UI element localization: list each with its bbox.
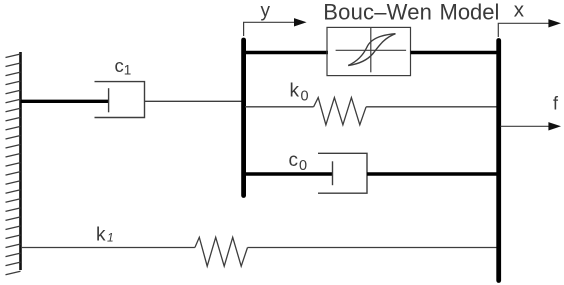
displacement x arrowhead <box>548 19 561 27</box>
spring K1 <box>195 237 248 266</box>
wire: wall to spring k1 <box>21 247 195 249</box>
damper C0 cylinder (open left) <box>318 153 367 193</box>
wire: middle bar to damper C0 piston <box>245 172 333 175</box>
wire: spring k0 to right bar <box>366 106 497 108</box>
displacement x leader line <box>498 23 549 37</box>
svg-text:y: y <box>261 1 271 22</box>
Bouc-Wen block box <box>327 27 411 75</box>
wall (fixed support, left) <box>19 52 22 270</box>
wire: middle bar to Bouc-Wen block <box>245 51 328 54</box>
svg-text:Bouc–Wen: Bouc–Wen <box>323 0 432 24</box>
spring K0 <box>314 98 367 125</box>
wire: spring k1 to right bar <box>248 247 498 249</box>
force f arrow line <box>501 125 550 127</box>
wall hatching <box>6 54 21 275</box>
node: middle rigid bar (piston rod) <box>241 40 246 196</box>
wire: damper C0 to right bar <box>367 172 497 175</box>
Bouc-Wen hysteresis loop <box>348 34 395 66</box>
wire: damper C1 to middle bar <box>145 100 243 102</box>
damper C1 piston plate <box>108 88 110 112</box>
displacement y leader line <box>244 22 295 36</box>
force f arrowhead <box>548 122 561 130</box>
wire: Bouc-Wen block to right bar <box>411 51 498 54</box>
svg-text:Model: Model <box>440 0 500 24</box>
damper C0 piston plate <box>332 161 334 185</box>
wire: middle bar to spring k0 <box>245 106 314 108</box>
node: right rigid bar (damper housing) <box>496 41 501 281</box>
damper C1 cylinder (open left) <box>95 82 145 118</box>
displacement y arrowhead <box>294 18 307 26</box>
Bouc-Wen block axes crosshair <box>370 28 372 72</box>
svg-text:x: x <box>514 0 525 21</box>
wire: damper C1 piston rod from wall <box>21 100 109 103</box>
